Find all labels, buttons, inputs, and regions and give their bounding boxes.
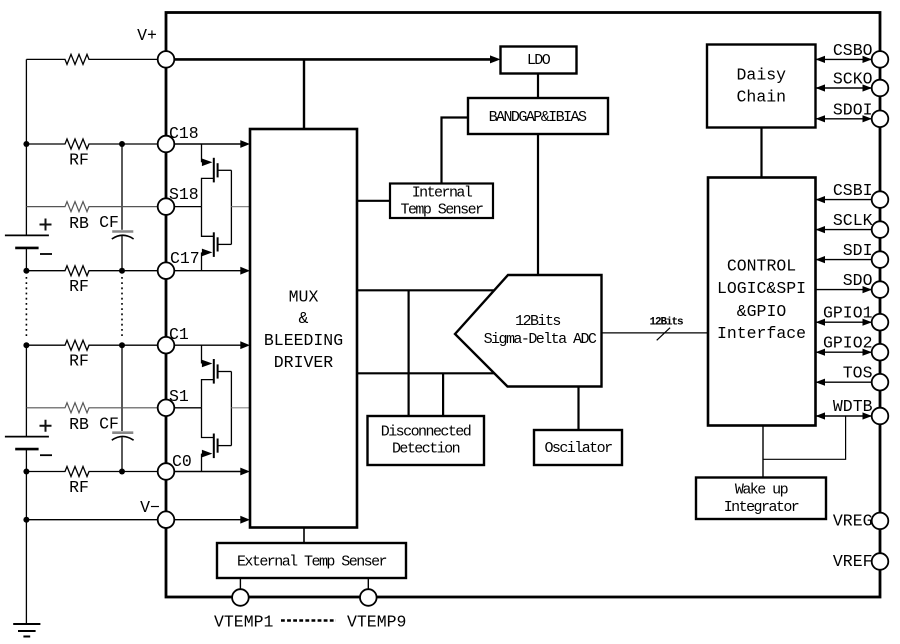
wire S18 to FET source node [174,206,201,208]
wire V+ to LDO (thick) [174,58,492,61]
svg-text:GPIO2: GPIO2 [823,334,873,353]
junction dot (122,471.5) [119,469,125,475]
wire GPIO2 pin [816,351,873,353]
resistor (V+ filter) [26,54,94,64]
wire CONTROL to Wake up Integrator [762,426,764,478]
svg-text:12Bits: 12Bits [649,317,683,329]
svg-text:VTEMP9: VTEMP9 [347,613,406,632]
wire C17 to MUX with arrow [174,270,241,272]
junction dot (26.4,270.7) [23,268,29,274]
svg-text:Daisy: Daisy [737,66,787,85]
battery cell 1 plus plate [5,234,49,236]
pin circle C1 [158,337,175,354]
wire SDO pin [816,289,873,291]
svg-text:V−: V− [140,498,160,517]
svg-text:TOS: TOS [843,364,873,383]
wire V+ row left with resistor [94,58,158,60]
wire left bus battery1 to C17 [25,248,27,271]
svg-text:&: & [299,309,309,328]
block CONTROL LOGIC&SPI&GPIO Interface [708,178,816,426]
wire left bus battery2 to C0 [25,449,27,471]
transistor upper bleed FET (Q1a) [202,345,232,408]
wire to VTEMP1 pin [239,578,241,590]
wire 12Bits bus ADC to CONTROL [602,332,709,334]
svg-text:WDTB: WDTB [833,397,873,416]
wire gate bus (Q1a/Q1b) [230,372,232,446]
block Disconnected Detection [368,416,485,465]
pin circle SCLK [872,221,889,238]
svg-text:&GPIO: &GPIO [737,302,787,321]
capacitor CF1 curved plate [112,235,134,239]
svg-text:LOGIC&SPI: LOGIC&SPI [717,279,806,298]
svg-text:Interface: Interface [717,324,806,343]
svg-text:CF: CF [99,414,119,433]
pin circle C17 [158,262,175,279]
pin circle VREF [872,553,889,570]
wire MUX to Internal Temp Senser [357,200,390,202]
battery cell 1 plus sign [40,219,52,231]
wire V- row left [26,519,158,521]
arrowhead into LDO [490,55,501,63]
junction dot (26.4,519.7) [23,517,29,523]
svg-text:Chain: Chain [737,88,787,107]
wire CF bus cap CF2 to C0 [121,437,123,471]
svg-text:SCLK: SCLK [833,211,873,230]
pin circle C18 [158,136,175,153]
svg-text:Integrator: Integrator [724,499,799,516]
pin circle TOS [872,374,889,391]
svg-text:C0: C0 [172,452,192,471]
junction dot (26.4,345.2) [23,342,29,348]
svg-text:RF: RF [69,277,89,296]
block Internal Temp Senser [390,184,493,219]
wire S1 row with resistor RB (gray) [26,403,158,413]
wire V- to MUX with arrow [174,519,241,521]
junction dot (26.4,144) [23,141,29,147]
pin circle SDOI [872,111,889,128]
dashed separator between VTEMP labels [281,619,336,622]
svg-text:BANDGAP&IBIAS: BANDGAP&IBIAS [489,109,587,126]
wire WDTB pin [816,415,873,417]
block MUX & BLEEDING DRIVER [250,129,357,528]
wire MUX to External Temp Senser [303,528,305,544]
svg-text:CSBO: CSBO [833,41,873,60]
wire C0 row with resistor RF [26,467,158,477]
op block 12Bits Sigma-Delta ADC (pentagon) [455,275,602,387]
pin circle CSBO [872,51,889,68]
svg-text:RF: RF [69,352,89,371]
svg-text:RF: RF [69,478,89,497]
wire Daisy Chain to CONTROL [760,128,762,178]
pin circle VTEMP9 [360,589,377,606]
svg-text:VTEMP1: VTEMP1 [214,613,274,632]
wire SDI pin [816,259,873,261]
svg-text:MUX: MUX [289,287,319,306]
wire TOS pin [816,381,873,383]
pin circle VTEMP1 [232,589,249,606]
wire to VTEMP9 pin [367,578,369,590]
svg-text:CF: CF [99,213,119,232]
svg-text:DRIVER: DRIVER [274,353,334,372]
wire gate stub to MUX (gray) [231,407,250,409]
svg-text:SDI: SDI [843,241,873,260]
svg-text:LDO: LDO [527,52,551,69]
battery cell 2 minus sign [40,454,52,456]
svg-text:VREF: VREF [833,552,873,571]
battery cell 1 minus sign [40,253,52,255]
svg-text:CSBI: CSBI [833,181,873,200]
block Wake up Integrator [696,478,826,520]
wire C1 row with resistor RF [26,340,158,350]
wire CSBI pin [816,199,873,201]
wire C1 to MUX with arrow [174,344,241,346]
wire SCKO pin [816,87,873,89]
wire gate stub to MUX (gray) [231,206,250,208]
wire left bus top segment [25,59,27,235]
wire SCLK pin [816,229,873,231]
svg-text:Wake up: Wake up [735,482,788,499]
capacitor CF2 curved plate [112,436,134,440]
block Oscilator [534,430,622,465]
wire LDO to BANDGAP [537,74,539,99]
capacitor CF2 gray plate [112,431,133,434]
junction dot (26.4,471.5) [23,469,29,475]
wire BANDGAP to Internal Temp Senser [442,118,469,184]
wire C0 to MUX with arrow [174,471,241,473]
svg-text:Sigma-Delta ADC: Sigma-Delta ADC [484,331,597,348]
battery cell 1 minus plate [15,247,38,250]
wire BANDGAP to ADC [537,134,539,275]
wire gate bus (Q18a/Q18b) [230,170,232,244]
svg-text:GPIO1: GPIO1 [823,304,873,323]
pin circle SCKO [872,80,889,97]
pin circle S1 [158,400,175,417]
svg-text:V+: V+ [137,26,157,45]
svg-text:BLEEDING: BLEEDING [264,331,343,350]
svg-text:External Temp Senser: External Temp Senser [237,554,387,571]
svg-text:SCKO: SCKO [833,70,873,89]
block LDO [501,47,577,74]
pin circle VREG [872,513,889,530]
transistor upper bleed FET (Q18a) [202,144,232,207]
svg-text:CONTROL: CONTROL [727,257,796,276]
pin circle SDO [872,281,889,298]
transistor lower bleed FET (Q18b) [202,207,232,271]
wire S1 to FET source node [174,407,201,409]
pin circle C0 [158,463,175,480]
junction dot (122,144) [119,141,125,147]
pin circle GPIO2 [872,344,889,361]
svg-text:Disconnected: Disconnected [381,424,471,441]
svg-text:Oscilator: Oscilator [544,440,612,457]
pin circle WDTB [872,408,889,425]
block BANDGAP&IBIAS [468,98,608,134]
wire C18 row with resistor RF [26,139,158,149]
capacitor CF1 gray plate [112,230,133,233]
bus slash mark [657,328,670,341]
chip boundary rectangle [166,13,880,598]
svg-text:Temp Senser: Temp Senser [401,202,484,219]
wire CF bus dotted section [121,277,123,339]
block Daisy Chain [707,45,816,128]
transistor lower bleed FET (Q1b) [202,408,232,472]
battery cell 2 minus plate [15,448,38,451]
battery cell 2 plus sign [40,420,52,432]
wire branch to Disconnected Detection right [442,373,444,416]
wire S18 row with resistor RB (gray) [26,202,158,212]
wire CF bus cap CF1 to C17 [121,236,123,271]
block External Temp Senser [217,543,406,578]
wire GPIO1 pin [816,321,873,323]
svg-text:12Bits: 12Bits [515,313,560,330]
wire left bus C0 to V- to ground [25,472,27,625]
wire left bus C1 to battery2 [25,345,27,436]
wire MUX to ADC lower [357,372,495,374]
wire C17 row with resistor RF [26,266,158,276]
svg-text:RB: RB [69,214,89,233]
svg-text:C17: C17 [170,249,200,268]
wire C18 to MUX with arrow [174,143,241,145]
svg-text:VREG: VREG [833,512,873,531]
wire V+ branch down to MUX top [303,59,305,129]
wire left bus dotted section [25,277,27,339]
battery cell 2 plus plate [5,436,49,438]
svg-text:SDO: SDO [843,271,873,290]
svg-text:Internal: Internal [412,185,473,202]
pin circle GPIO1 [872,314,889,331]
pin circle V+ [158,51,175,68]
wire MUX to ADC upper [357,289,494,291]
wire ADC to Oscilator [577,387,579,431]
svg-text:S18: S18 [169,185,199,204]
wire CF bus C1 to cap CF2 [121,345,123,431]
pin circle SDI [872,251,889,268]
ground symbol [13,624,40,637]
wire SDOI pin [816,118,873,120]
pin circle S18 [158,198,175,215]
wire CSBO pin [816,58,873,60]
pin circle CSBI [872,191,889,208]
wire branch to Disconnected Detection left [408,290,410,416]
pin circle V- [158,511,175,528]
svg-text:SDOI: SDOI [833,101,873,120]
junction dot (122,270.7) [119,268,125,274]
wire CF bus upper (C18 to cap CF1) [121,144,123,230]
wire WDTB feedback loop [763,416,846,459]
svg-text:Detection: Detection [392,441,460,458]
junction dot (122,345.2) [119,342,125,348]
svg-text:RF: RF [69,151,89,170]
svg-text:RB: RB [69,415,89,434]
